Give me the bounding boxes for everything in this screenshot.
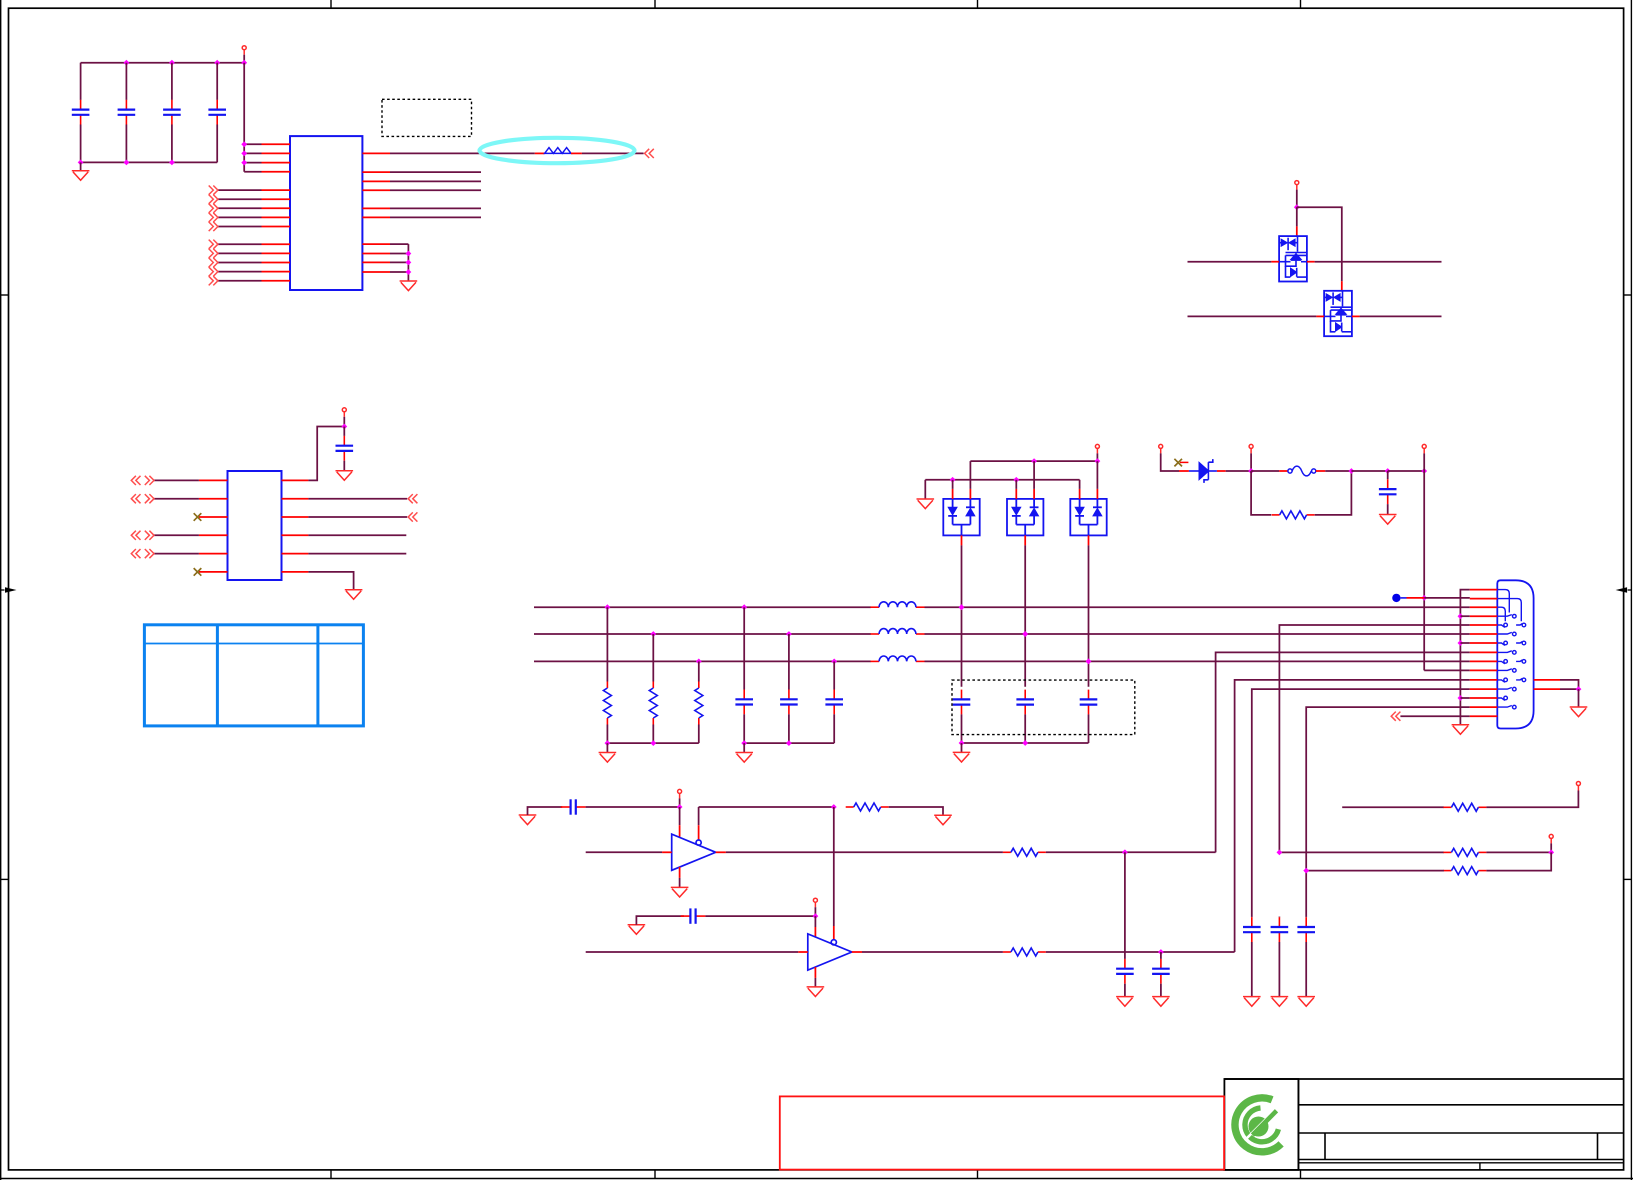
pin [1316,315,1324,317]
wire opamp1 input [586,851,662,853]
company logo [1235,1098,1281,1152]
wire rail A [970,460,1097,462]
wire opamp1 enable [699,806,834,808]
wire [969,461,971,489]
junction [1458,695,1464,701]
pin J1-3 [1470,606,1498,608]
frame zone tick top 2 [654,0,656,8]
pin U1 right [362,216,390,218]
ground [1271,997,1289,1007]
connector J1 pin pads [1497,590,1525,709]
pin U1 right [362,180,390,182]
wire [1226,470,1251,472]
no-connect X [194,568,202,576]
capacitor C at x=1251.8 [1251,916,1253,919]
junction [241,60,247,66]
wire pull-up1 [1279,851,1444,853]
power pin VCC9 [1549,834,1553,843]
IC U2 [228,471,282,580]
pin U1 right [362,207,390,209]
junction [1421,595,1427,601]
junction [1458,640,1464,646]
pin [1296,226,1298,236]
wire pull-up2 [1306,870,1444,872]
wire [1296,190,1298,208]
pin U2 left [199,516,228,518]
resistor R7 [846,806,854,808]
pin U2 left [199,479,228,481]
wire [961,743,963,752]
junction [1158,949,1164,955]
resistor FB1 (ferrite bead) [535,152,545,154]
inductor L on bus1 [871,606,880,608]
junction [786,631,792,637]
off-page connector out [209,249,218,258]
pin [1307,261,1315,263]
wire [1315,261,1442,263]
wire VCC5 drop [1423,471,1425,670]
junction [169,160,175,166]
wire [390,253,408,255]
wire U2 out2 [308,498,407,500]
ground [72,171,90,181]
junction [1013,477,1019,483]
wire [1560,680,1579,689]
junction [1122,849,1128,855]
pin U2 left [199,553,228,555]
wire [814,978,816,987]
wire bus1 right segment [925,606,1470,608]
wire [218,207,262,209]
pin U1 left [262,162,291,164]
resistor R6 [1003,851,1011,853]
wire [218,198,262,200]
junction [406,251,412,257]
wire [952,480,954,489]
wire [1024,714,1026,743]
wire bus3 left segment [534,660,871,662]
wire [390,207,481,209]
capacitor CB at x=834.2 [833,661,835,689]
junction [1277,850,1283,856]
wire opamp2 enable drop [833,807,835,926]
wire [244,143,261,145]
pin [1341,281,1343,291]
off-page connector in [1391,712,1400,721]
ground [807,987,825,997]
wire opamp2 input [586,951,799,953]
wire [1342,806,1444,808]
wire R rail [607,742,698,744]
junction [650,740,656,746]
wire to ground [80,162,82,170]
wire [814,916,816,927]
pin U2 right [282,534,309,536]
highlight ellipse [480,138,635,163]
resistor RT at x=698.8 [698,661,700,681]
pin J1-1 [1470,589,1498,591]
frame zone tick left upper [1,294,9,296]
wire [679,798,681,807]
junction [605,740,611,746]
junction [1086,659,1092,665]
wire [679,807,681,825]
wire [961,714,963,743]
junction [696,659,702,665]
off-page connector bidir [131,494,154,503]
junction [406,260,412,266]
junction [1303,868,1309,874]
junction [1385,468,1391,474]
frame zone tick top 4 [1300,0,1302,8]
pin U2 left [199,534,228,536]
wire to DB pin11 [1235,680,1470,952]
frame zone tick top 1 [330,0,332,8]
junction [1022,631,1028,637]
junction [1294,204,1300,210]
junction [650,631,656,637]
resistor R4 [1443,851,1451,853]
wire [390,261,408,263]
pin U1 left [262,171,291,173]
wire [1486,851,1551,853]
pin [679,867,681,878]
wire [889,807,943,815]
junction [124,160,130,166]
wire [1251,470,1279,472]
wire to DB pin10 [1424,669,1470,671]
pin [852,951,862,953]
pin J1-9 [1470,660,1498,662]
pin J1-12 [1470,688,1498,690]
frame zone tick bottom 2 [654,1170,656,1179]
wire bus1 left segment [534,606,871,608]
wire TVS3 drop [1088,545,1090,686]
wire [218,280,262,282]
inductor L on bus3 [871,660,880,662]
wire [1046,951,1235,953]
wire [1297,207,1342,281]
pin U1 right low [362,271,390,273]
wire [390,271,408,273]
wire TVS1 drop [961,545,963,686]
pin J1-11 [1470,679,1498,681]
wire [743,743,745,752]
pin U2 right [282,571,309,573]
pin U1 left [262,280,291,282]
wire [1033,461,1035,489]
wire [814,907,816,916]
ground [1570,707,1588,717]
capacitor C at x=1279.4 [1278,916,1280,919]
pin U1 right low [362,253,390,255]
power pin VCC4 [1249,444,1253,453]
wire [218,226,262,228]
wire [606,743,608,752]
pin J1-15 [1470,715,1498,717]
capacitor C2 [125,63,127,100]
wire [1161,453,1179,471]
pin [814,967,816,978]
wire [390,180,481,182]
wire [924,480,926,499]
wire [154,553,199,555]
TVS diode pair D at x=1025.2 [1007,499,1043,536]
wire DB gnd bus [1460,590,1469,725]
resistor RT at x=653.3 [652,634,654,682]
frame center arrow left [1,587,17,592]
wire [244,171,261,173]
approval box (red) [780,1096,1224,1169]
junction [677,804,683,810]
junction [813,913,819,919]
ground [599,753,617,763]
wire [1325,470,1351,472]
wire VCC1 vertical [243,55,245,63]
TVS array D3 [1324,291,1352,336]
TVS array D2 [1279,236,1307,281]
wire U2 out1 up [308,427,344,481]
pin J1 right b [1534,688,1560,690]
off-page connector out [209,267,218,276]
pin [1271,261,1279,263]
pin U2 right [282,498,309,500]
ground [1152,997,1170,1007]
ground [1243,997,1261,1007]
ground [1116,997,1134,1007]
wire [244,152,261,154]
wire [1360,315,1442,317]
junction [1548,850,1554,856]
wire [528,807,563,815]
wire U2 pin6 to ground [308,572,353,590]
wire [705,915,815,917]
ground [628,925,646,935]
op-amp U4 buffer [808,934,852,970]
wire U1 VCC feed vertical [243,63,245,172]
off-page connector out [209,204,218,213]
wire [1046,851,1216,853]
pin U1 left [262,189,291,191]
off-page connector out [209,195,218,204]
frame zone tick right lower [1624,878,1632,880]
ground [1452,725,1470,735]
pin U1 left [262,198,291,200]
wire signal A [1188,261,1272,263]
wire [390,189,481,191]
wire rail B [925,479,1079,481]
wire [1486,791,1578,808]
power pin VCC8 [1576,782,1580,791]
wire U2 out3 [308,516,407,518]
junction [786,740,792,746]
wire cap bank top rail [81,62,245,64]
wire [390,243,408,245]
wire [1079,480,1081,489]
pin [716,851,726,853]
wire [1088,714,1090,743]
pin [1352,315,1360,317]
pin U2 right [282,516,309,518]
wire TVS2 drop [1024,545,1026,686]
pin J1-7 [1470,642,1498,644]
op-amp U3 buffer [672,834,716,870]
ground [519,815,537,825]
off-page connector out [209,213,218,222]
power pin VCC3 [1159,444,1163,453]
wire bus2 left segment [534,633,871,635]
pin J1-8 [1470,651,1498,653]
resistor R1 parallel loop [1251,471,1271,515]
off-page connector bidir [131,549,154,558]
wire [698,807,700,825]
off-page connector out [209,258,218,267]
pin U1 right low [362,261,390,263]
capacitor C at x=1306.2 [1305,916,1307,919]
capacitor C7 [561,799,586,814]
connector J1 body [1497,580,1533,728]
wire [1250,453,1252,471]
IC U1 [290,136,362,290]
ground [345,590,363,600]
pin J1-13 [1470,697,1498,699]
ground [1379,515,1397,525]
ground [934,815,952,825]
wire U1 gnd bus [407,244,409,281]
wire [154,498,199,500]
junction [959,740,965,746]
junction [959,604,965,610]
pin U1 left [262,252,291,254]
junction [341,424,347,430]
junction [959,604,965,610]
ground [400,281,418,291]
junction [214,60,220,66]
capacitor CT at x=961.5 [953,690,971,715]
pin [814,927,816,937]
net stub dot (dangling) [1392,594,1400,602]
junction [241,141,247,147]
wire [218,243,262,245]
wire opamp1 output [726,851,1003,853]
pin U1 left [262,243,291,245]
wire [679,878,681,888]
wire to DB pin2 [1424,597,1470,599]
wire [1388,470,1425,472]
pin [1179,470,1189,472]
wire bus2 right segment [925,633,1470,635]
pin [798,951,808,953]
pin U2 left [199,571,228,573]
power pin VCC2 [342,408,346,417]
frame zone tick top 3 [977,0,979,8]
wire [1460,615,1469,617]
note box (dashed) [382,99,472,136]
pin J1-2 [1470,598,1498,600]
inductor L on bus2 [871,633,880,635]
ground [671,887,689,897]
frame zone tick bottom 4 [1300,1170,1302,1179]
pin J1-10 [1470,669,1498,671]
no-connect X [194,513,202,521]
wire [586,806,680,808]
wire U1 to R2 net [390,152,535,154]
capacitor CB at x=744.2 [743,607,745,689]
wire [218,216,262,218]
junction [169,60,175,66]
off-page connector bidir [131,531,154,540]
wire [1296,207,1298,226]
power pin VCC11 [813,898,817,907]
junction [1086,659,1092,665]
pin U1 right [362,189,390,191]
junction [741,604,747,610]
capacitor CT at x=1025.2 [1016,690,1034,715]
capacitor C10 [1160,952,1162,959]
junction [124,60,130,66]
junction [1095,458,1101,464]
frame zone tick right upper [1624,294,1632,296]
pin [698,825,700,840]
pin U1 left [262,226,291,228]
junction [950,477,956,483]
wire [636,916,684,925]
off-page connector bidir [131,476,154,485]
junction [1576,686,1582,692]
TVS diode pair D at x=961.5 [943,499,979,536]
wire [1560,688,1579,690]
wire [1460,697,1469,699]
pin J1-4 [1470,615,1498,617]
wire [1550,843,1552,852]
pin J1 right a [1534,679,1560,681]
junction [406,269,412,275]
ground [735,753,753,763]
wire [582,152,644,154]
capacitor C4 [216,63,218,100]
off-page connector out [209,222,218,231]
wire [343,417,345,427]
wire bus3 right segment [925,660,1470,662]
junction [241,151,247,157]
wire to DB pin15 [1400,715,1469,717]
frame zone tick bottom 1 [330,1170,332,1179]
diode D1 (zener) [1189,459,1217,483]
ground [917,499,935,509]
wire [218,189,262,191]
pin U1 left [262,216,291,218]
frame zone tick left lower [1,878,9,880]
pin J1-5 [1470,624,1498,626]
wire [218,252,262,254]
wire [218,271,262,273]
wire to DB pin8 [1216,652,1470,852]
wire to DB pin5 [1279,625,1469,852]
pin U2 right [282,479,309,481]
junction [741,740,747,746]
wire to DB pin12 [1252,689,1470,917]
pin [1217,470,1226,472]
ground [336,471,354,481]
frame zone tick bottom 3 [977,1170,979,1179]
wire [1423,453,1425,471]
wire signal B [1188,315,1317,317]
pin U1 left [262,271,291,273]
pin J1-14 [1470,706,1498,708]
filter box (dashed) [952,680,1135,735]
resistor R8 [1003,951,1011,953]
junction [1421,468,1427,474]
